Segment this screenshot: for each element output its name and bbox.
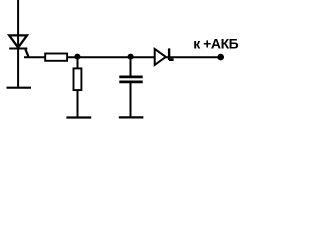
node junction 1 bbox=[74, 54, 80, 60]
resistor R1 bbox=[45, 54, 67, 61]
wire node1 down bbox=[77, 57, 79, 69]
terminal bar under C1 bbox=[119, 116, 144, 118]
wire gate to resistor bbox=[24, 56, 46, 58]
label к +АКБ bbox=[193, 36, 238, 52]
wire diode to terminal bbox=[165, 56, 220, 58]
wire anode top bbox=[17, 0, 19, 49]
diode VD1 triangle bbox=[155, 49, 166, 65]
wire cathode down bbox=[17, 50, 19, 87]
capacitor C1 bottom plate bbox=[119, 81, 142, 84]
diode VD1 cathode foot bbox=[169, 58, 174, 61]
terminal dot +AKB bbox=[217, 54, 224, 61]
resistor R2 bbox=[74, 68, 82, 90]
thyristor VS1 triangle bbox=[9, 35, 27, 47]
svg-text:к +АКБ: к +АКБ bbox=[193, 36, 238, 52]
diode VD1 cathode bar bbox=[168, 48, 170, 60]
terminal bar left bbox=[7, 87, 32, 89]
node junction 2 bbox=[128, 54, 134, 60]
wire R2 down bbox=[77, 90, 79, 116]
thyristor VS1 cathode bar bbox=[9, 47, 27, 49]
capacitor C1 top plate bbox=[119, 76, 142, 79]
wire C1 down bbox=[130, 83, 132, 116]
wire main horizontal bbox=[68, 56, 155, 58]
terminal bar under R2 bbox=[66, 116, 91, 118]
thyristor VS1 gate lead bbox=[25, 49, 28, 56]
wire node2 down bbox=[130, 57, 132, 76]
